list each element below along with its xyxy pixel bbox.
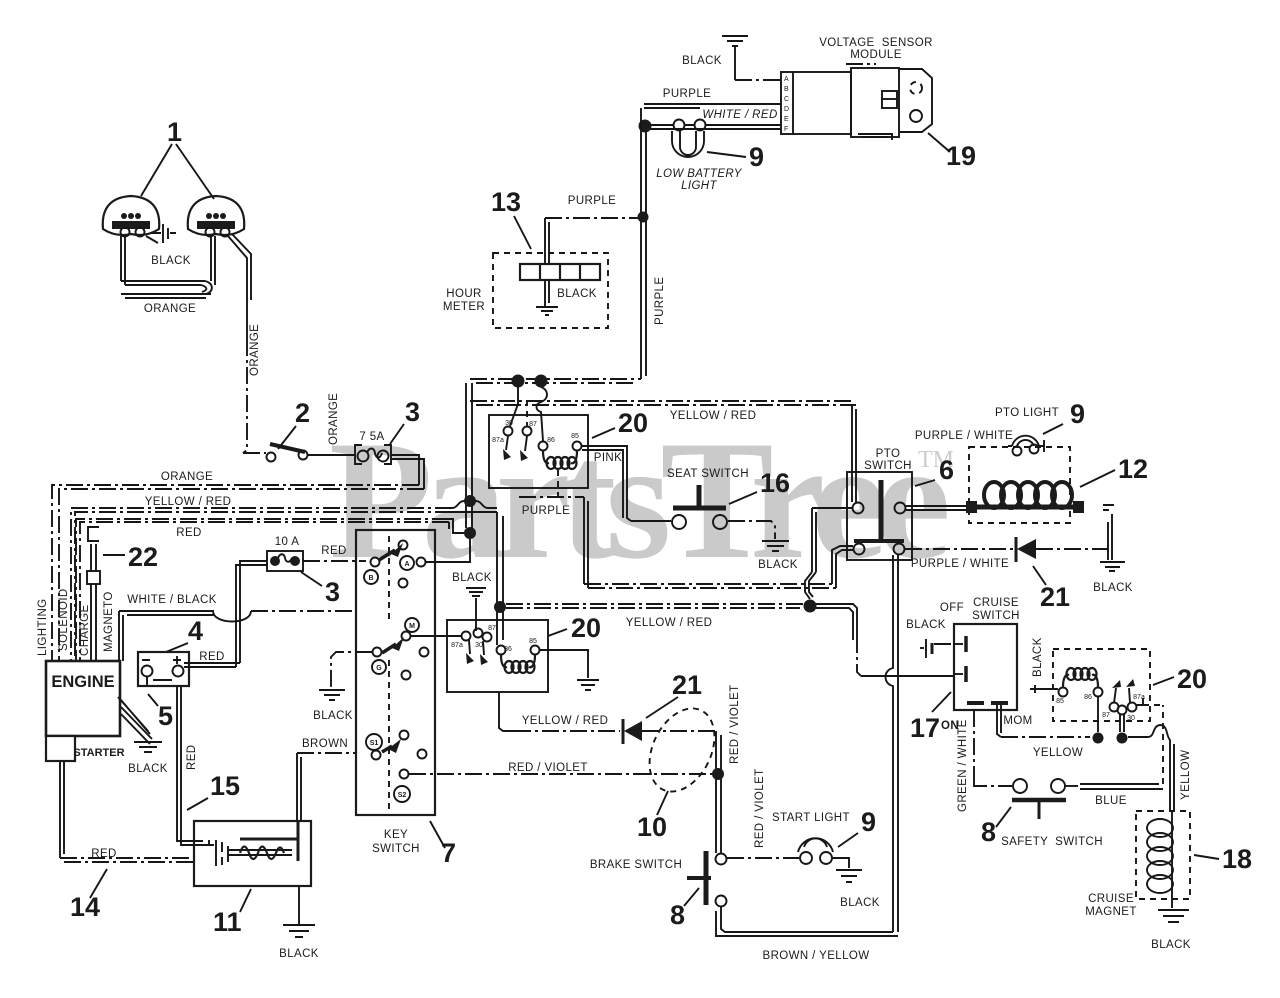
ground engine black xyxy=(134,742,162,752)
svg-text:ORANGE: ORANGE xyxy=(249,324,261,376)
relay K1 contacts xyxy=(504,427,513,436)
svg-text:PINK: PINK xyxy=(594,452,622,464)
svg-text:6: 6 xyxy=(939,455,954,485)
PTO light xyxy=(1008,436,1044,456)
wires item5 engine ground straps xyxy=(118,697,152,744)
svg-text:21: 21 xyxy=(1040,582,1070,612)
wire yellow/red bump over purple xyxy=(452,501,497,512)
svg-text:E: E xyxy=(784,116,789,123)
svg-text:KEY: KEY xyxy=(384,829,408,841)
wire relay2 out bottom xyxy=(499,692,514,731)
svg-text:RED / VIOLET: RED / VIOLET xyxy=(754,768,766,848)
wire black to module xyxy=(735,79,781,81)
wire node right down xyxy=(816,604,857,640)
svg-text:BROWN: BROWN xyxy=(302,738,348,750)
svg-text:MOM: MOM xyxy=(1003,715,1032,727)
svg-text:7 5A: 7 5A xyxy=(359,431,384,443)
wire start light to ground xyxy=(832,858,849,868)
wire hourmeter top xyxy=(545,218,549,264)
svg-text:2: 2 xyxy=(295,398,310,428)
PTO switch box xyxy=(847,472,912,560)
svg-text:13: 13 xyxy=(491,187,521,217)
svg-text:PTO LIGHT: PTO LIGHT xyxy=(995,407,1059,419)
svg-text:YELLOW / RED: YELLOW / RED xyxy=(670,410,757,422)
diode D1 xyxy=(622,719,625,744)
svg-text:BLACK: BLACK xyxy=(758,559,798,571)
svg-text:86: 86 xyxy=(547,437,555,444)
svg-text:ORANGE: ORANGE xyxy=(144,303,196,315)
key switch box xyxy=(356,530,435,815)
wire brown/yellow xyxy=(716,907,898,936)
svg-text:BROWN / YELLOW: BROWN / YELLOW xyxy=(763,950,870,962)
wire purple top xyxy=(644,104,781,108)
node seat junction xyxy=(804,600,817,613)
svg-text:YELLOW / RED: YELLOW / RED xyxy=(626,617,713,629)
svg-text:PURPLE: PURPLE xyxy=(663,88,711,100)
headlamp 1 xyxy=(103,196,159,237)
svg-text:86: 86 xyxy=(1084,694,1092,701)
svg-text:3: 3 xyxy=(325,577,340,607)
connector plug on magneto wire xyxy=(87,571,100,584)
svg-text:GREEN / WHITE: GREEN / WHITE xyxy=(957,719,969,812)
wire top bus purple xyxy=(470,379,641,383)
ground relay3 xyxy=(1030,685,1058,693)
wire yellow right with hop xyxy=(1128,725,1174,812)
wire purple/white riser xyxy=(886,555,899,932)
wire 85 to ground xyxy=(540,650,588,678)
clutch coil 12 xyxy=(966,447,1084,523)
wire battery plus down red to solenoid xyxy=(177,686,181,838)
svg-text:MODULE: MODULE xyxy=(850,49,902,61)
svg-text:19: 19 xyxy=(946,141,976,171)
wire fuse to orange bus xyxy=(391,455,424,489)
svg-text:VOLTAGE SENSOR: VOLTAGE SENSOR xyxy=(819,37,933,49)
start light L1 xyxy=(798,838,833,864)
relay K3 arms xyxy=(1114,688,1130,703)
fuse 10A F1 xyxy=(267,551,303,571)
svg-text:OFF: OFF xyxy=(940,602,964,614)
svg-text:20: 20 xyxy=(618,408,648,438)
svg-text:CRUISE: CRUISE xyxy=(973,597,1019,609)
key arm B-A xyxy=(379,550,395,560)
switch S2 lights xyxy=(267,444,308,462)
wire node to key A xyxy=(426,539,470,562)
node bus dot 1 xyxy=(512,375,525,388)
svg-text:CRUISE: CRUISE xyxy=(1088,893,1134,905)
node purple junction top xyxy=(639,120,652,133)
svg-text:WHITE / RED: WHITE / RED xyxy=(702,109,777,121)
svg-text:HOUR: HOUR xyxy=(446,288,481,300)
svg-text:B: B xyxy=(784,86,789,93)
wire fuse10 left to battery xyxy=(236,561,267,667)
relay K1 coil xyxy=(543,451,549,463)
wire blue xyxy=(1065,785,1078,787)
relay K3 coil xyxy=(1063,675,1069,687)
svg-text:PTO: PTO xyxy=(876,448,901,460)
wire diode2 to ground xyxy=(1036,548,1110,550)
svg-text:G: G xyxy=(376,665,382,672)
svg-text:87a: 87a xyxy=(492,437,504,444)
relay K3 box xyxy=(1053,649,1150,721)
svg-text:PURPLE / WHITE: PURPLE / WHITE xyxy=(915,430,1013,442)
svg-text:10: 10 xyxy=(637,812,667,842)
svg-text:7: 7 xyxy=(441,838,456,868)
wire M to relay2 xyxy=(411,635,461,637)
svg-text:S1: S1 xyxy=(370,740,379,747)
svg-text:RED / VIOLET: RED / VIOLET xyxy=(508,762,588,774)
svg-text:9: 9 xyxy=(749,142,764,172)
wire red bus xyxy=(76,519,449,661)
svg-text:MAGNETO: MAGNETO xyxy=(103,591,115,652)
node yellow 1 xyxy=(1093,733,1104,744)
battery 4 xyxy=(138,652,189,686)
wire red bottom to solenoid xyxy=(60,858,194,862)
svg-text:8: 8 xyxy=(981,817,996,847)
wire magneto pair upper xyxy=(91,544,96,571)
svg-text:12: 12 xyxy=(1118,454,1148,484)
relay K2 box xyxy=(447,620,548,692)
node yellow 2 xyxy=(1117,733,1128,744)
relay K2 coil xyxy=(501,655,507,667)
cruise switch box 17 xyxy=(954,624,1017,710)
fuse 7.5A xyxy=(355,445,391,464)
svg-text:SAFETY SWITCH: SAFETY SWITCH xyxy=(1001,836,1103,848)
label 1 xyxy=(141,117,214,199)
battery sym cruise xyxy=(925,639,927,658)
svg-text:PURPLE / WHITE: PURPLE / WHITE xyxy=(911,558,1009,570)
hour meter box xyxy=(493,253,608,328)
ground relay2 85 xyxy=(577,680,599,690)
wire purple down right xyxy=(584,497,588,588)
svg-text:RED / VIOLET: RED / VIOLET xyxy=(729,684,741,764)
svg-text:20: 20 xyxy=(571,613,601,643)
svg-text:C: C xyxy=(784,96,789,103)
node yellowred junction xyxy=(464,495,476,507)
wire yellow/red bus to cruise xyxy=(506,604,804,608)
wire hourmeter bottom xyxy=(545,280,549,307)
terminal A xyxy=(400,556,414,570)
relay K1 arms xyxy=(506,436,527,451)
svg-text:14: 14 xyxy=(70,892,100,922)
node purple hourmeter junction xyxy=(638,212,649,223)
relay K2 arms xyxy=(469,640,484,655)
node red/violet junction xyxy=(712,768,724,780)
wire green/white down xyxy=(973,710,975,782)
wire white/red xyxy=(650,125,781,129)
svg-text:18: 18 xyxy=(1222,844,1252,874)
node relay2 in xyxy=(494,601,506,613)
wire pink into seat xyxy=(631,520,671,522)
svg-text:S2: S2 xyxy=(398,792,407,799)
svg-text:87: 87 xyxy=(1102,712,1110,719)
svg-text:BLACK: BLACK xyxy=(279,948,319,960)
svg-text:RED: RED xyxy=(176,527,201,539)
wire orange bus xyxy=(52,485,424,661)
wire solenoid ground xyxy=(298,886,300,925)
wire lamp rails xyxy=(121,236,215,285)
wire pto to clutch xyxy=(906,506,966,510)
solenoid 11 xyxy=(194,821,311,886)
svg-text:WHITE / BLACK: WHITE / BLACK xyxy=(127,594,217,606)
wire yellowred into relay2 86 xyxy=(497,512,503,645)
engine xyxy=(46,661,120,736)
key arm S1 xyxy=(382,746,392,752)
svg-text:ORANGE: ORANGE xyxy=(161,471,213,483)
relay K3 contacts xyxy=(1059,688,1068,697)
svg-text:30: 30 xyxy=(1127,715,1135,722)
wire yellow/red top bus xyxy=(470,401,856,405)
wire S2 red/violet xyxy=(409,773,712,775)
wire battery plus up to fuse xyxy=(184,663,240,667)
svg-text:BRAKE SWITCH: BRAKE SWITCH xyxy=(590,859,682,871)
svg-text:SWITCH: SWITCH xyxy=(372,843,420,855)
headlamp 2 xyxy=(188,196,244,237)
cruise magnet 18 xyxy=(1136,811,1190,908)
svg-text:BLACK: BLACK xyxy=(682,55,722,67)
terminal S1 xyxy=(366,734,382,750)
svg-text:SWITCH: SWITCH xyxy=(864,460,912,472)
safety switch xyxy=(1012,779,1066,819)
svg-text:30: 30 xyxy=(475,642,483,649)
wire G to ground xyxy=(331,652,372,690)
svg-text:5: 5 xyxy=(158,701,173,731)
relay K1 box xyxy=(489,415,588,488)
wire white/black xyxy=(119,611,251,622)
wire PTO left top to riser xyxy=(812,507,852,509)
ground start light xyxy=(836,870,862,882)
svg-text:METER: METER xyxy=(443,301,485,313)
svg-text:ORANGE: ORANGE xyxy=(328,393,340,445)
ground cruise magnet xyxy=(1158,910,1189,922)
wire 86 down to node xyxy=(1097,697,1099,732)
wire mom down to yellow xyxy=(997,705,1001,737)
wire 30 down to node xyxy=(1120,714,1124,732)
svg-text:17: 17 xyxy=(910,713,940,743)
diode D2 xyxy=(1015,537,1018,562)
svg-text:MAGNET: MAGNET xyxy=(1085,906,1137,918)
wire dot2 down to relay1 86 xyxy=(537,387,548,441)
ground seat xyxy=(762,541,789,551)
svg-text:9: 9 xyxy=(1070,399,1085,429)
svg-text:F: F xyxy=(784,126,788,133)
svg-text:YELLOW: YELLOW xyxy=(1180,750,1192,800)
svg-text:SEAT SWITCH: SEAT SWITCH xyxy=(667,468,749,480)
wire lamp2 to orange drop xyxy=(228,234,251,339)
svg-text:BLUE: BLUE xyxy=(1095,795,1127,807)
wire magneto pair lower xyxy=(91,584,96,661)
svg-text:D: D xyxy=(784,106,789,113)
wire hop above node xyxy=(805,572,816,599)
svg-text:BLACK: BLACK xyxy=(840,897,880,909)
wire yellow/red down to PTO xyxy=(852,405,856,502)
svg-text:21: 21 xyxy=(672,670,702,700)
wire orange to switch xyxy=(243,452,266,454)
svg-text:PURPLE: PURPLE xyxy=(654,277,666,325)
node bus dot 2 xyxy=(535,375,548,388)
wire hop over purple riser xyxy=(861,675,954,677)
wire node down to brake xyxy=(716,731,721,853)
svg-text:RED: RED xyxy=(186,745,198,770)
svg-text:87: 87 xyxy=(488,625,496,632)
ground top black xyxy=(722,36,748,80)
wire switch to fuse xyxy=(308,454,355,456)
svg-text:B: B xyxy=(368,575,373,582)
wire seat to ground xyxy=(728,521,775,539)
wire pink from 85 xyxy=(582,446,631,521)
svg-text:BLACK: BLACK xyxy=(1032,637,1044,677)
svg-text:BLACK: BLACK xyxy=(313,710,353,722)
svg-text:STARTER: STARTER xyxy=(73,747,124,759)
ground clutch xyxy=(1103,505,1114,560)
svg-text:YELLOW / RED: YELLOW / RED xyxy=(522,715,609,727)
terminal M xyxy=(405,618,419,632)
svg-text:SOLENOID: SOLENOID xyxy=(58,588,70,651)
svg-text:85: 85 xyxy=(529,638,537,645)
svg-text:20: 20 xyxy=(1177,664,1207,694)
svg-text:RED: RED xyxy=(321,545,346,557)
svg-text:16: 16 xyxy=(760,468,790,498)
svg-text:M: M xyxy=(409,623,415,630)
wire to diode xyxy=(514,730,620,732)
wire green/white dashes xyxy=(974,782,1012,786)
wire purple from coil xyxy=(557,470,559,497)
ground key G black xyxy=(319,690,345,700)
svg-text:1: 1 xyxy=(167,117,182,147)
brake switch xyxy=(687,851,727,907)
wire pw right and diode xyxy=(905,548,1013,550)
svg-text:RED: RED xyxy=(199,651,224,663)
wire purple vertical mid xyxy=(466,383,472,528)
svg-text:11: 11 xyxy=(213,907,242,937)
svg-text:8: 8 xyxy=(670,900,685,930)
svg-text:BLACK: BLACK xyxy=(557,288,597,300)
svg-text:3: 3 xyxy=(405,397,420,427)
ground above relay2 xyxy=(466,588,486,631)
seat switch 16 xyxy=(672,485,727,529)
ground solenoid xyxy=(283,925,315,937)
relay K2 contacts xyxy=(462,632,471,641)
wire diode to node xyxy=(642,730,716,732)
wire 87a to blue riser xyxy=(1136,698,1143,705)
svg-text:22: 22 xyxy=(128,542,158,572)
node red junction xyxy=(464,527,476,539)
terminal B xyxy=(364,570,378,584)
wire yellow to relay3 xyxy=(1001,736,1090,738)
svg-text:PURPLE: PURPLE xyxy=(522,505,570,517)
svg-text:LIGHTING: LIGHTING xyxy=(37,598,49,656)
wire starter red down xyxy=(60,761,64,858)
starter xyxy=(46,736,125,761)
connector bracket 22 xyxy=(88,527,99,541)
svg-text:85: 85 xyxy=(1056,698,1064,705)
svg-text:4: 4 xyxy=(188,616,203,646)
capacitor connector at lamp1 xyxy=(146,224,176,243)
svg-text:9: 9 xyxy=(861,807,876,837)
svg-text:SWITCH: SWITCH xyxy=(972,610,1020,622)
ground hourmeter xyxy=(536,307,558,315)
wire yellow/red bus xyxy=(71,508,452,661)
terminal S2 xyxy=(394,786,410,802)
wire brown up xyxy=(297,753,301,821)
svg-text:BLACK: BLACK xyxy=(906,619,946,631)
svg-text:START LIGHT: START LIGHT xyxy=(772,812,850,824)
voltage sensor module U19 xyxy=(781,64,932,140)
svg-text:ENGINE: ENGINE xyxy=(51,673,114,691)
svg-text:10 A: 10 A xyxy=(275,536,300,548)
key arm G-M xyxy=(382,644,396,653)
wire red into solenoid xyxy=(177,835,203,845)
wire dot1 down to relay1 xyxy=(510,387,518,426)
svg-text:YELLOW: YELLOW xyxy=(1033,747,1083,759)
svg-text:LIGHT: LIGHT xyxy=(681,180,717,192)
svg-text:BLACK: BLACK xyxy=(128,763,168,775)
svg-text:BLACK: BLACK xyxy=(151,255,191,267)
wire red bus corner to node xyxy=(449,519,464,533)
svg-text:A: A xyxy=(404,561,409,568)
svg-text:BLACK: BLACK xyxy=(1093,582,1133,594)
svg-text:BLACK: BLACK xyxy=(1151,939,1191,951)
svg-text:BLACK: BLACK xyxy=(452,572,492,584)
svg-text:85: 85 xyxy=(571,433,579,440)
svg-text:15: 15 xyxy=(210,771,240,801)
steering ellipse 10 xyxy=(637,698,728,803)
svg-text:PURPLE: PURPLE xyxy=(568,195,616,207)
svg-text:A: A xyxy=(784,76,789,83)
wire fuse10 to key B xyxy=(303,560,366,562)
svg-text:87a: 87a xyxy=(451,642,463,649)
terminal G xyxy=(372,660,386,674)
svg-text:YELLOW / RED: YELLOW / RED xyxy=(145,496,232,508)
svg-text:LOW BATTERY: LOW BATTERY xyxy=(656,168,742,180)
wire purple vertical xyxy=(641,108,646,379)
low battery light xyxy=(672,120,706,158)
wire PTO drop left xyxy=(812,508,816,572)
svg-text:CHARGE: CHARGE xyxy=(79,604,91,656)
wire brake to start light xyxy=(727,857,799,859)
